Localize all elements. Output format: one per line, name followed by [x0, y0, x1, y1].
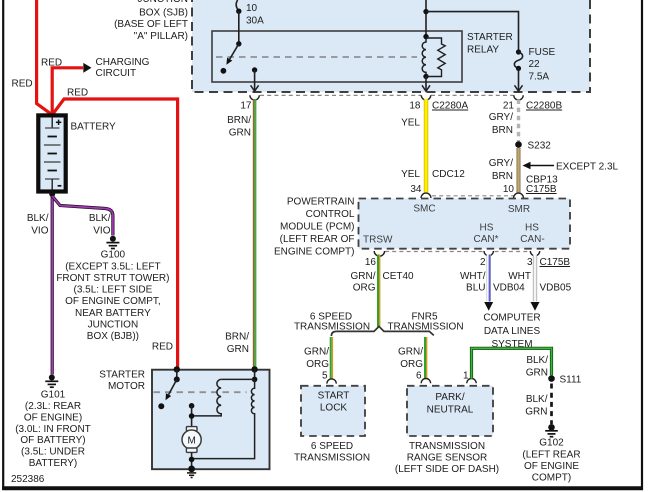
- ground under starter motor: [187, 473, 196, 478]
- svg-text:BRN: BRN: [492, 125, 513, 136]
- svg-text:VDB05: VDB05: [540, 283, 572, 294]
- svg-text:GRY/: GRY/: [489, 158, 513, 169]
- pull-in coil: [192, 379, 222, 416]
- svg-text:GRN: GRN: [229, 128, 251, 139]
- starter motor label: [99, 370, 145, 393]
- svg-text:YEL: YEL: [401, 169, 420, 180]
- svg-text:6 SPEED: 6 SPEED: [311, 441, 353, 452]
- relay inner box: [212, 31, 462, 82]
- svg-text:21: 21: [503, 101, 515, 112]
- svg-text:VIO: VIO: [93, 226, 110, 237]
- svg-text:ORG: ORG: [353, 283, 376, 294]
- pin 17 connector arc: [240, 95, 259, 111]
- relay output terminal and arrow to pin 17: [251, 67, 259, 91]
- svg-text:PARK/: PARK/: [435, 392, 464, 403]
- battery: [38, 115, 116, 191]
- svg-text:OF ENGINE): OF ENGINE): [24, 412, 82, 423]
- wire GRN/ORG PCM pin16 down to split: [351, 255, 415, 328]
- SJB label text block: [114, 0, 188, 42]
- computer data lines system label: [483, 313, 540, 351]
- svg-text:SMR: SMR: [508, 204, 530, 215]
- pin 10 connector arc: [503, 184, 557, 198]
- pin 1 connector arc: [463, 371, 476, 384]
- transmission range sensor caption: [395, 441, 499, 475]
- starter relay label: [467, 32, 513, 56]
- svg-text:GRN/: GRN/: [304, 347, 329, 358]
- PCM label text block: [274, 197, 355, 258]
- svg-text:WHT: WHT: [508, 271, 531, 282]
- svg-text:7.5A: 7.5A: [529, 72, 550, 83]
- wire GRN/ORG to start lock: [304, 337, 332, 379]
- wire BLK/VIO battery to G100: [52, 196, 113, 237]
- svg-text:WHT/: WHT/: [460, 271, 486, 282]
- svg-text:OF ENGINE: OF ENGINE: [524, 461, 579, 472]
- svg-text:252386: 252386: [11, 474, 45, 485]
- svg-text:G102: G102: [539, 438, 564, 449]
- pin 3 connector arc: [527, 251, 570, 268]
- PCM powertrain control module box: [359, 199, 571, 249]
- pin 16 connector arc: [365, 251, 385, 268]
- solenoid contact: [158, 403, 164, 409]
- svg-text:SMC: SMC: [413, 204, 435, 215]
- svg-text:BLU: BLU: [466, 283, 485, 294]
- svg-text:CET40: CET40: [383, 271, 415, 282]
- svg-text:HS: HS: [480, 223, 494, 234]
- splice S111: [548, 375, 582, 386]
- svg-text:(LEFT SIDE OF DASH): (LEFT SIDE OF DASH): [395, 464, 499, 475]
- wire GRY/BRN S232 to PCM pin10: [489, 148, 519, 194]
- fuse F10 30A: [236, 0, 264, 27]
- park/neutral box: [407, 386, 493, 436]
- svg-text:FRONT STRUT TOWER): FRONT STRUT TOWER): [56, 273, 169, 284]
- wire BRN/GRN pin17 to starter motor: [227, 99, 255, 369]
- svg-text:JUNCTION: JUNCTION: [88, 319, 139, 330]
- connector line C2280 (thin dashed): [260, 94, 514, 96]
- svg-text:22: 22: [529, 59, 541, 70]
- svg-text:(EXCEPT 3.5L: LEFT: (EXCEPT 3.5L: LEFT: [65, 261, 160, 272]
- svg-text:(3.0L: IN FRONT: (3.0L: IN FRONT: [15, 424, 91, 435]
- svg-text:1: 1: [463, 371, 469, 382]
- svg-text:GRN/: GRN/: [351, 271, 376, 282]
- svg-text:2: 2: [480, 257, 486, 268]
- SJB smart junction box (dashed, cut off at top): [192, 0, 590, 92]
- svg-text:MODULE (PCM): MODULE (PCM): [280, 222, 354, 233]
- start lock caption: [294, 441, 370, 464]
- svg-text:TRSW: TRSW: [363, 235, 393, 246]
- RED wire battery to starter motor: [52, 88, 177, 370]
- pin 18 connector arc: [409, 95, 468, 111]
- svg-text:RANGE SENSOR: RANGE SENSOR: [407, 453, 488, 464]
- svg-text:GRN: GRN: [227, 344, 249, 355]
- svg-text:BOX (SJB): BOX (SJB): [139, 8, 188, 19]
- motor to ground wiring: [188, 452, 195, 472]
- svg-text:BATTERY: BATTERY: [71, 122, 117, 133]
- svg-text:RELAY: RELAY: [467, 45, 499, 56]
- svg-text:START: START: [318, 391, 350, 402]
- wire WHT PCM pin3: [508, 255, 571, 302]
- svg-text:GRN: GRN: [525, 407, 547, 418]
- pin 6 connector arc: [416, 371, 431, 384]
- svg-text:TRANSMISSION: TRANSMISSION: [387, 322, 463, 333]
- svg-text:BOX (BJB)): BOX (BJB)): [87, 331, 139, 342]
- svg-text:CDC12: CDC12: [432, 169, 465, 180]
- svg-text:TRANSMISSION: TRANSMISSION: [294, 322, 370, 333]
- svg-text:CAN-: CAN-: [520, 234, 544, 245]
- wire BLK/GRN pin1 to S111: [472, 348, 552, 379]
- svg-text:RED: RED: [67, 88, 88, 99]
- svg-text:(LEFT REAR: (LEFT REAR: [522, 450, 580, 461]
- svg-text:10: 10: [246, 3, 258, 14]
- svg-text:CHARGING: CHARGING: [96, 57, 150, 68]
- wire from top to relay coil: [425, 0, 427, 37]
- motor M: [182, 427, 201, 453]
- solenoid switch stem: [176, 369, 178, 379]
- starter relay coil: [422, 34, 428, 79]
- svg-text:POWERTRAIN: POWERTRAIN: [287, 197, 355, 208]
- svg-text:BRN/: BRN/: [225, 332, 249, 343]
- svg-text:M: M: [188, 435, 196, 446]
- svg-text:COMPUTER: COMPUTER: [483, 313, 540, 324]
- svg-text:C2280B: C2280B: [526, 101, 562, 112]
- svg-text:S232: S232: [528, 141, 552, 152]
- svg-text:S111: S111: [560, 375, 582, 386]
- svg-text:C2280A: C2280A: [432, 101, 468, 112]
- svg-text:EXCEPT 2.3L: EXCEPT 2.3L: [556, 162, 619, 173]
- svg-text:BATTERY): BATTERY): [29, 458, 78, 469]
- svg-text:OF ENGINE COMPT,: OF ENGINE COMPT,: [65, 296, 161, 307]
- svg-text:JUNCTION: JUNCTION: [137, 0, 188, 5]
- start lock box: [301, 386, 365, 436]
- svg-text:RED: RED: [152, 342, 173, 353]
- svg-text:BLK/: BLK/: [526, 355, 548, 366]
- wire fuse10 to relay switch: [238, 11, 240, 44]
- svg-text:10: 10: [503, 184, 515, 195]
- wire GRY/BRN pin21 to S232 (dashed): [489, 100, 519, 142]
- relay switch contact (upper): [236, 41, 241, 46]
- svg-text:GRN: GRN: [526, 368, 548, 379]
- svg-text:STARTER: STARTER: [467, 32, 513, 43]
- svg-text:C175B: C175B: [526, 184, 557, 195]
- wire label BRN/GRN near starter motor: [225, 332, 249, 356]
- starter motor box: [152, 370, 270, 470]
- ground G101: [15, 375, 91, 470]
- battery negative terminal node: [49, 191, 55, 197]
- ground G102: [522, 424, 580, 484]
- PCM bottom connector line (thin dashed): [385, 251, 530, 253]
- relay switch blade with arrow: [226, 44, 238, 65]
- brn/grn entry node: [251, 366, 257, 372]
- solenoid switch blade: [166, 379, 177, 400]
- main RED wire from top: [12, 0, 53, 115]
- svg-text:YEL: YEL: [401, 118, 420, 129]
- option split bracket: [294, 312, 464, 337]
- wire YEL pin18 to PCM pin34: [401, 99, 465, 194]
- svg-text:18: 18: [409, 101, 421, 112]
- solenoid coil wiring: [221, 369, 257, 382]
- svg-text:RED: RED: [12, 79, 33, 90]
- relay coil output arrow to pin 18: [422, 76, 430, 91]
- pin 21 connector arc: [503, 95, 563, 111]
- arrow to computer data lines (pin3): [531, 302, 540, 311]
- junction node: [423, 9, 428, 14]
- svg-text:STARTER: STARTER: [99, 370, 145, 381]
- svg-text:5: 5: [322, 371, 328, 382]
- svg-text:CIRCUIT: CIRCUIT: [96, 68, 137, 79]
- arrow to computer data lines (pin2): [484, 302, 493, 311]
- fuse F22 7.5A: [514, 47, 555, 83]
- relay switch contact (lower): [221, 68, 227, 74]
- svg-text:COMPT): COMPT): [532, 473, 571, 484]
- svg-text:LOCK: LOCK: [320, 403, 348, 414]
- svg-text:BLK/: BLK/: [27, 213, 49, 224]
- svg-text:3: 3: [527, 257, 533, 268]
- svg-text:VIO: VIO: [31, 226, 48, 237]
- splice S232: [515, 141, 551, 152]
- svg-text:BRN/: BRN/: [227, 115, 251, 126]
- svg-text:RED: RED: [41, 58, 62, 69]
- wire BLK/VIO battery to G101: [27, 196, 52, 375]
- svg-text:CONTROL: CONTROL: [306, 209, 355, 220]
- svg-text:OF BATTERY): OF BATTERY): [20, 435, 85, 446]
- svg-text:ORG: ORG: [306, 359, 329, 370]
- svg-text:GRN/: GRN/: [398, 347, 423, 358]
- fuse22 output arrow to pin 21: [515, 68, 523, 91]
- svg-text:30A: 30A: [246, 16, 264, 27]
- svg-text:DATA LINES: DATA LINES: [484, 326, 541, 337]
- svg-text:(2.3L: REAR: (2.3L: REAR: [25, 401, 81, 412]
- svg-text:BLK/: BLK/: [526, 394, 548, 405]
- hold-in coil: [192, 379, 255, 458]
- svg-text:ORG: ORG: [400, 359, 423, 370]
- wire WHT/BLU PCM pin2: [460, 255, 525, 302]
- svg-text:G100: G100: [101, 250, 126, 261]
- svg-text:CAN*: CAN*: [473, 234, 498, 245]
- svg-text:17: 17: [240, 101, 252, 112]
- motor contact node: [189, 403, 195, 427]
- EXCEPT 2.3L arrow: [523, 162, 619, 173]
- svg-text:(BASE OF LEFT: (BASE OF LEFT: [114, 19, 188, 30]
- pin 5 connector arc: [322, 371, 336, 384]
- svg-text:16: 16: [365, 257, 377, 268]
- wire GRN/ORG to park/neutral: [398, 337, 427, 379]
- svg-text:(3.5L: LEFT SIDE: (3.5L: LEFT SIDE: [74, 285, 153, 296]
- svg-text:(LEFT REAR OF: (LEFT REAR OF: [280, 234, 355, 245]
- RED branch to charging circuit: [41, 57, 150, 114]
- svg-text:FUSE: FUSE: [529, 47, 556, 58]
- svg-text:GRY/: GRY/: [489, 112, 513, 123]
- svg-text:HS: HS: [525, 223, 539, 234]
- ground G100: [56, 236, 169, 342]
- svg-text:C175B: C175B: [540, 257, 571, 268]
- svg-text:"A" PILLAR): "A" PILLAR): [134, 31, 188, 42]
- relay coil resistor: [426, 38, 445, 77]
- svg-text:(3.5L: UNDER: (3.5L: UNDER: [21, 447, 85, 458]
- svg-text:MOTOR: MOTOR: [108, 381, 145, 392]
- svg-text:BRN: BRN: [492, 171, 513, 182]
- PCM connector line C175B top (thin dashed): [432, 195, 514, 197]
- svg-text:NEAR BATTERY: NEAR BATTERY: [75, 308, 151, 319]
- wire BLK/GRN S111 to G102 (dashed): [525, 384, 551, 425]
- red wire entry node: [174, 366, 180, 372]
- svg-text:TRANSMISSION: TRANSMISSION: [294, 453, 370, 464]
- wire to fuse 22: [426, 12, 519, 52]
- svg-text:6: 6: [416, 371, 422, 382]
- pin 2 connector arc: [480, 251, 493, 268]
- svg-text:34: 34: [410, 184, 422, 195]
- pin 34 connector arc: [410, 184, 431, 198]
- svg-text:ENGINE COMPT): ENGINE COMPT): [274, 247, 355, 258]
- svg-text:TRANSMISSION: TRANSMISSION: [409, 441, 485, 452]
- solenoid dashed line: [154, 391, 247, 393]
- svg-text:VDB04: VDB04: [493, 283, 525, 294]
- svg-text:BLK/: BLK/: [89, 213, 111, 224]
- svg-text:NEUTRAL: NEUTRAL: [427, 405, 474, 416]
- svg-text:G101: G101: [41, 390, 66, 401]
